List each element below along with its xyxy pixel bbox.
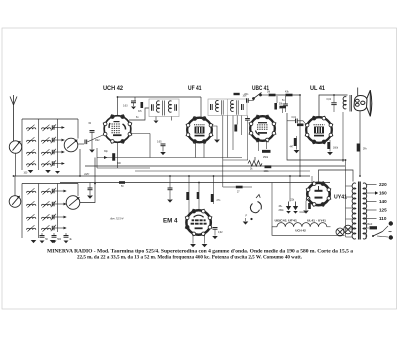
capacitor T2a: [211, 104, 213, 110]
wire tap 160: [366, 192, 377, 194]
wire bank1 left rail: [21, 119, 23, 170]
svg-text:C442: C442: [300, 212, 306, 214]
wire row to switch2: [54, 203, 66, 205]
wire EM4 anode: [198, 183, 200, 212]
wire top to S1b: [77, 119, 79, 139]
plug pin 1: [389, 221, 393, 225]
wire S1c up: [14, 176, 16, 196]
ground bank1 b: [45, 170, 51, 173]
wire bank1 top: [22, 118, 78, 120]
svg-text:UF 41: UF 41: [188, 86, 202, 92]
wire: [169, 176, 171, 188]
tube EM4: [185, 209, 212, 236]
arrow: [104, 156, 107, 159]
padder C5: [52, 189, 54, 193]
tube UCH42: [103, 114, 132, 143]
ground EM4 c: [212, 236, 218, 239]
wire tap 140: [366, 201, 377, 203]
wire link down: [200, 97, 202, 118]
resistor 37k: [141, 102, 144, 108]
wire: [261, 94, 268, 96]
resistor grid UL41: [297, 124, 304, 127]
svg-text:22,5 m, da 22 a 33,5 m, da 13: 22,5 m, da 22 a 33,5 m, da 13 a 52 m. Me…: [77, 255, 303, 261]
capacitor UCH42 grid: [90, 131, 95, 133]
wire fb2: [342, 112, 344, 162]
arrow: [63, 227, 66, 230]
coil L2 aerial: [27, 140, 36, 142]
svg-text:0,02: 0,02: [218, 232, 223, 234]
core arrow: [28, 161, 35, 167]
coil L1b grid: [42, 128, 51, 130]
wire tap left: [346, 228, 353, 230]
coil L7b: [42, 217, 51, 219]
ground T1: [154, 121, 159, 124]
coil T4 secondary: [352, 183, 356, 239]
core arrow: [28, 188, 35, 194]
core T2b: [237, 100, 239, 115]
wire UL41 anode: [319, 95, 348, 117]
trimmer arrow: [51, 201, 56, 207]
wire to UCH42 grid: [88, 135, 104, 142]
svg-text:1M: 1M: [267, 92, 270, 94]
pot wiper arrow: [254, 157, 256, 161]
core arrow: [28, 201, 35, 207]
wire UCH42 anode: [129, 108, 149, 120]
wire row to switch: [54, 127, 64, 129]
wire: [192, 234, 194, 244]
capacitor grid coupling: [85, 140, 87, 145]
arrow: [61, 126, 64, 129]
svg-text:45+: 45+: [279, 206, 284, 208]
ground 0,03: [131, 107, 136, 110]
ground af: [167, 200, 173, 203]
tube UBC41: [249, 115, 277, 143]
coil L8 osc: [27, 228, 36, 230]
wire det to pot: [223, 159, 248, 161]
junction: [333, 94, 335, 96]
dial lamp 2: [344, 225, 353, 234]
junction: [79, 175, 81, 177]
wire row to switch: [54, 163, 64, 165]
ground UL41 k: [294, 150, 300, 153]
fuse: [370, 226, 378, 229]
ground UF41 screen: [214, 140, 220, 143]
capacitor padder: [52, 236, 57, 238]
wire AVC bus: [14, 175, 311, 177]
trimmer arrow: [51, 225, 56, 231]
coil T1 primary: [157, 101, 160, 112]
wire: [245, 218, 247, 221]
wire S1d out: [80, 158, 95, 203]
wire switch1 out: [78, 143, 84, 145]
wire: [133, 103, 135, 106]
wire top to S1d: [77, 184, 79, 197]
wire tap 220: [366, 184, 377, 186]
antenna: [10, 95, 17, 141]
wire bank2 top: [22, 183, 78, 185]
core T1: [163, 101, 165, 116]
band switch S1c: [9, 196, 21, 208]
wire: [236, 116, 238, 125]
switch dot: [372, 235, 374, 237]
resistor 300c: [112, 153, 115, 161]
wire: [329, 140, 331, 152]
ground 0,05: [160, 152, 166, 155]
coil L6 osc: [27, 204, 36, 206]
resistor EM4 anode: [197, 192, 199, 199]
ground elco b: [293, 211, 298, 214]
resistor heater drop: [119, 181, 125, 184]
wire: [204, 234, 206, 244]
wire UBC41 k: [266, 140, 268, 149]
wire B+ drop: [299, 95, 301, 176]
wire tap left: [346, 218, 353, 220]
wire: [89, 190, 91, 195]
svg-text:EM 4: EM 4: [163, 218, 178, 224]
svg-text:UCH 42: UCH 42: [103, 86, 124, 92]
core arrow: [43, 214, 50, 220]
wire UY41 k: [306, 197, 310, 210]
wire padder: [65, 233, 67, 235]
junction: [289, 175, 291, 177]
wire cathode bus: [97, 157, 242, 159]
coil T2 secondary: [231, 100, 234, 111]
wire: [91, 132, 93, 149]
ground pickup: [243, 222, 249, 225]
svg-text:160k: 160k: [333, 148, 339, 150]
wire tap left: [346, 236, 353, 238]
wire UY41 heater: [311, 176, 313, 186]
ground elco a: [286, 211, 291, 214]
tube UY41: [306, 181, 331, 206]
switch tone: [253, 93, 262, 100]
arrow: [63, 203, 66, 206]
core arrow: [28, 149, 35, 155]
wire: [282, 109, 284, 114]
core arrow: [43, 137, 50, 143]
wire UCH42 g3: [117, 97, 119, 116]
plug pin 2: [389, 235, 393, 239]
capacitor 2Fn: [357, 144, 360, 152]
wire bank1 right rail: [57, 119, 59, 168]
wire field: [359, 111, 361, 176]
wire feedback: [287, 113, 345, 160]
wire: [96, 148, 98, 168]
capacitor af coupling: [168, 188, 173, 190]
ground padder: [40, 241, 45, 244]
wire heater feed: [271, 183, 273, 227]
trimmer C4: [52, 161, 54, 165]
junction: [345, 159, 347, 161]
junction: [213, 175, 215, 177]
wire: [287, 120, 295, 122]
IF transformer T2: [208, 99, 247, 116]
wire padder: [53, 233, 55, 235]
band switch S1b: [64, 138, 78, 152]
svg-text:UL 41: UL 41: [310, 86, 326, 92]
wire: [97, 167, 150, 169]
wire plug a: [383, 226, 389, 232]
wire UF41 k: [195, 142, 197, 158]
wire det e: [247, 120, 249, 160]
wire row to switch: [54, 151, 64, 153]
svg-text:220: 220: [379, 182, 387, 187]
wire UF41 screen: [212, 126, 218, 139]
junction: [117, 96, 119, 98]
wire: [366, 227, 369, 229]
svg-text:0,03: 0,03: [123, 106, 128, 108]
junction: [299, 94, 301, 96]
trimmer C1: [52, 125, 54, 129]
wire det d: [241, 116, 243, 136]
wire: [162, 146, 164, 152]
wire UL41 grid: [297, 121, 306, 125]
wire tap 110: [366, 218, 377, 220]
trimmer C3: [52, 150, 54, 154]
pickup jack: [250, 195, 261, 213]
wire row to switch: [54, 139, 64, 141]
coil L1 aerial: [27, 128, 36, 130]
wire bank2 mid rail: [38, 184, 40, 239]
capacitor EM4: [213, 228, 218, 230]
svg-text:110: 110: [379, 216, 387, 221]
wire bank2 right rail: [57, 184, 59, 233]
coil L2b grid: [42, 140, 51, 142]
ground UY41: [303, 211, 309, 214]
wire B+ bus: [85, 165, 345, 167]
wire: [253, 99, 255, 101]
core arrow: [43, 125, 50, 131]
wire bus 171: [135, 170, 310, 172]
padder C6: [52, 202, 54, 206]
svg-text:UY41: UY41: [334, 194, 348, 200]
capacitor 5n: [283, 104, 288, 106]
wire: [365, 233, 367, 239]
wire UL41 k: [296, 136, 298, 150]
wire antenna down: [15, 153, 17, 176]
arrow: [63, 216, 66, 219]
svg-text:AVC: AVC: [83, 172, 89, 176]
core arrow: [43, 188, 50, 194]
svg-text:2SAF: 2SAF: [367, 223, 373, 226]
resistor EM4 grid: [186, 192, 189, 200]
svg-text:140: 140: [379, 199, 387, 204]
wire heater end: [327, 226, 331, 228]
junction: [198, 182, 200, 184]
core arrow: [28, 137, 35, 143]
heater chain coils: [277, 223, 327, 227]
wire pickup a: [223, 186, 236, 188]
capacitor 0,05: [161, 144, 166, 146]
capacitor 10n: [247, 98, 249, 103]
wire: [248, 100, 253, 102]
ground 160k: [327, 152, 333, 155]
capacitor osc pad: [88, 188, 93, 190]
wire row to switch2: [54, 216, 66, 218]
wire det a: [222, 116, 224, 188]
arrow: [61, 139, 64, 142]
tube UL41: [305, 116, 333, 144]
coil L4 aerial: [27, 164, 36, 166]
trimmer arrow: [51, 149, 56, 155]
wire: [89, 183, 91, 188]
resistor 1M: [269, 94, 276, 97]
wire: [155, 117, 157, 121]
coil T3 primary: [343, 97, 346, 109]
wire tap left: [346, 207, 353, 209]
wire to B+: [276, 94, 301, 96]
ground padder: [64, 241, 69, 244]
wire: [134, 97, 136, 101]
arrow 160: [375, 191, 378, 194]
wire: [149, 134, 151, 158]
wire: [169, 190, 171, 199]
ground bank1 c: [55, 171, 60, 174]
capacitor 0,03: [131, 101, 136, 103]
resistor det load: [234, 125, 237, 132]
resistor 44k: [234, 93, 240, 95]
wire osc link: [118, 96, 202, 98]
resistor 100k: [265, 165, 272, 168]
dial lamp 1: [336, 228, 344, 236]
band switch S1d: [66, 196, 80, 210]
wire: [276, 96, 278, 103]
ground bank2 b: [50, 240, 56, 243]
wire bank2 left rail: [21, 184, 23, 239]
wire: [247, 116, 249, 119]
svg-text:0,02: 0,02: [327, 99, 332, 101]
core arrow: [43, 149, 50, 155]
svg-text:Avv 525/4: Avv 525/4: [109, 217, 124, 221]
arrow: [61, 151, 64, 154]
trimmer arrow: [51, 160, 56, 166]
wire heater bus: [60, 182, 330, 184]
junction: [13, 175, 15, 177]
mains switch: [373, 232, 383, 237]
coil T1 secondary: [169, 101, 172, 112]
wire tap 125: [366, 209, 377, 211]
core arrow: [28, 125, 35, 131]
ground bank2 a: [31, 240, 37, 243]
wire heater return: [272, 227, 345, 236]
resistor 25k: [262, 150, 271, 153]
trimmer C2: [52, 138, 54, 142]
wire: [333, 95, 335, 102]
resistor 160k: [327, 142, 330, 149]
trimmer arrow: [51, 137, 56, 143]
wire: [285, 96, 287, 104]
ground bank1 a: [28, 170, 34, 173]
coil L5b: [42, 191, 51, 193]
svg-text:UCH 42: UCH 42: [295, 228, 306, 232]
resistor 43k: [286, 94, 293, 97]
IF transformer T1: [149, 99, 179, 117]
coil L5 osc: [27, 191, 36, 193]
wire plug b: [377, 236, 388, 237]
junction: [342, 159, 344, 161]
capacitor padder: [40, 236, 45, 238]
core arrow: [43, 161, 50, 167]
junction: [299, 175, 301, 177]
wire bank1 mid rail: [38, 119, 40, 170]
ground osc pad: [87, 196, 93, 199]
svg-text:160: 160: [379, 191, 387, 196]
coil T4 primary: [363, 183, 367, 239]
coil T2 primary: [216, 100, 219, 111]
trimmer arrow: [51, 124, 56, 130]
wire tap left: [346, 185, 353, 187]
ground EM4 a: [190, 244, 196, 247]
band switch S1a: [9, 141, 21, 153]
wire: [285, 106, 287, 112]
svg-text:125: 125: [379, 208, 387, 213]
wire EM4 target: [213, 176, 215, 204]
arrow: [61, 162, 64, 165]
arrow: [63, 190, 66, 193]
svg-text:~: ~: [388, 229, 392, 236]
svg-text:250k: 250k: [279, 210, 285, 212]
svg-text:0,05: 0,05: [157, 142, 162, 144]
trimmer arrow: [51, 188, 56, 194]
core T2a: [222, 100, 224, 115]
wire UCH42 k: [117, 142, 119, 168]
wire padder: [41, 233, 43, 235]
wire T1 sec down: [171, 117, 173, 121]
svg-text:100k: 100k: [264, 171, 270, 173]
wire UBC41 d: [258, 140, 260, 151]
core arrow: [28, 225, 35, 231]
capacitor padder: [64, 236, 69, 238]
wire elco feed: [289, 176, 291, 202]
resistor UY41: [308, 203, 311, 209]
capacitor T1b: [175, 104, 177, 111]
electrolytic 45uF b: [293, 206, 298, 210]
resistor 27: [236, 186, 243, 189]
core T4: [359, 182, 361, 240]
ground EM4 b: [202, 244, 208, 247]
coil L6b: [42, 204, 51, 206]
padder C7: [52, 215, 54, 219]
wire det b: [227, 116, 229, 158]
capacitor 0,01: [296, 119, 298, 124]
wire UCH42 osc anode: [130, 133, 150, 135]
wire det c: [232, 116, 234, 151]
junction: [359, 175, 361, 177]
electrolytic 45uF a: [286, 206, 291, 210]
trimmer arrow: [51, 214, 56, 220]
wire UF41 sup: [203, 142, 205, 158]
padder C8: [52, 226, 54, 230]
wire left rail: [345, 160, 347, 237]
core arrow: [43, 225, 50, 231]
svg-text:UL41 - UY41: UL41 - UY41: [307, 218, 327, 222]
resistor 27n: [211, 194, 214, 202]
ground padder: [52, 241, 57, 244]
wire row to switch2: [54, 227, 66, 229]
ground grid leak: [89, 150, 95, 153]
coil L3b grid: [42, 152, 51, 154]
coil L3 aerial: [27, 152, 36, 154]
tube UF41: [186, 116, 214, 144]
junction: [169, 175, 171, 177]
wire AVC to RF: [79, 149, 81, 176]
svg-text:1M2: 1M2: [95, 140, 100, 142]
wire EM4 grid: [188, 176, 190, 214]
core arrow: [43, 201, 50, 207]
wire UY41 anode: [319, 170, 354, 183]
loudspeaker: [354, 85, 372, 117]
svg-text:250k: 250k: [263, 157, 269, 159]
